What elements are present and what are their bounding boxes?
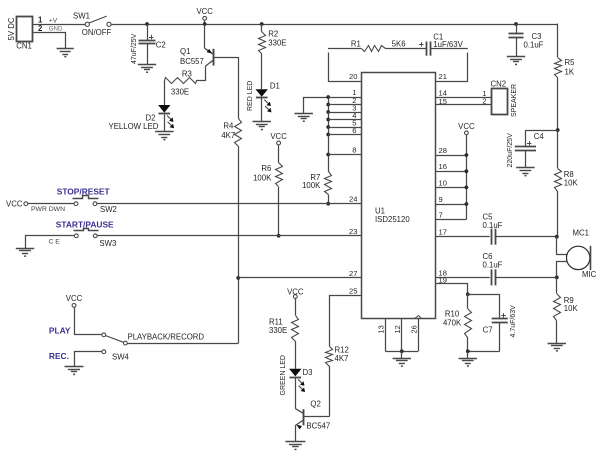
ground at C3 [507,57,525,66]
wire SW3 to pin23 [97,235,361,237]
pin 18 wire [436,269,490,278]
wire R10 node to ground [467,351,469,358]
op-amp U1 ISD25120 body [362,73,436,319]
svg-text:17: 17 [439,228,447,237]
svg-text:4K7: 4K7 [335,354,349,363]
wire SW3 to ground [26,236,75,249]
ground at IC bottom [393,359,411,367]
svg-text:YELLOW LED: YELLOW LED [109,122,159,131]
pin 5 wire [328,118,361,127]
wire bottom node to ground [401,351,403,358]
capacitor C7 4.7uF/63V [483,305,517,351]
svg-text:330E: 330E [269,326,287,335]
svg-text:CN2: CN2 [491,79,507,88]
pin 4 wire [328,111,361,120]
pin 23 label [349,227,357,236]
wire CN1 pin1 to SW1 [33,24,85,26]
svg-text:5K6: 5K6 [392,40,406,49]
wire rail to C2 [147,24,149,40]
node pin19 junction [466,292,470,296]
net label C E [49,238,61,245]
wire R11 to D3 [295,341,297,369]
svg-text:25: 25 [349,287,357,296]
svg-text:D1: D1 [270,82,280,91]
svg-text:C3: C3 [532,32,542,41]
svg-text:SW3: SW3 [99,239,116,248]
pin 12 wire [393,319,402,352]
svg-text:R1: R1 [351,40,361,49]
resistor R1 5K6 [351,40,406,52]
pin 17 wire [436,228,490,237]
svg-text:SW1: SW1 [73,11,90,20]
switch SW3 START/PAUSE [56,220,117,248]
pin 8 wire [328,146,361,155]
resistor R5 1K [555,58,576,78]
svg-text:+V: +V [49,17,58,24]
resistor R4 4K7 [221,119,241,147]
svg-text:VCC: VCC [6,200,23,209]
wire mic lower stub [557,262,567,278]
svg-text:0.1uF: 0.1uF [483,260,503,269]
svg-text:VCC: VCC [270,132,287,141]
power VCC at SW4 [66,294,83,335]
wire CN1 pin2 to ground [34,33,66,49]
wire R8 to pin17 node [557,191,559,236]
node Q1 emitter junction [203,22,207,26]
resistor R7 100K [302,172,331,195]
node bus pin6 [326,133,330,137]
connector CN1 (5V DC input) [7,17,33,51]
capacitor C6 0.1uF [483,252,503,286]
wire D1 to ground [261,98,263,122]
wire VCC to SW4 play contact [74,334,102,336]
svg-text:D3: D3 [303,368,313,377]
svg-text:PLAYBACK/RECORD: PLAYBACK/RECORD [128,332,205,341]
svg-text:13: 13 [377,325,386,333]
node pin17 mic junction [555,235,559,239]
LED D2 YELLOW [109,105,175,131]
svg-text:470K: 470K [443,318,462,327]
node vbus pin10 [465,186,469,190]
ground at R10 [459,359,477,367]
power VCC at R6 [270,132,287,163]
svg-text:20: 20 [349,72,357,81]
svg-text:6: 6 [352,126,356,135]
ground at CN1 pin2 [57,49,74,58]
svg-text:R12: R12 [335,345,349,354]
pin 14 wire [436,89,492,98]
ground at Q2 [285,442,305,451]
svg-text:10: 10 [439,178,447,187]
node R10 bottom junction [466,349,470,353]
wire R3 to D2 [164,81,166,106]
ground at C2 [138,65,156,74]
svg-text:VCC: VCC [287,288,304,297]
transistor Q1 BC557 [180,24,238,81]
connector CN2 SPEAKER [482,79,518,117]
svg-text:C2: C2 [156,40,166,49]
switch SW4 PLAYBACK/RECORD [102,332,205,361]
ground at SW3 [16,249,34,257]
node pin27 junction [236,276,240,280]
wire R6 to CE line [278,187,280,236]
wire VCC rail [111,24,558,26]
svg-text:GREEN LED: GREEN LED [280,355,287,395]
svg-text:1uF/63V: 1uF/63V [433,40,463,49]
node vbus pin9 [465,202,469,206]
pin 24 label [349,195,357,204]
svg-text:BC557: BC557 [180,57,204,66]
svg-text:SPEAKER: SPEAKER [511,84,518,117]
capacitor C2 47uF/25V [131,33,166,64]
svg-text:330E: 330E [171,88,189,97]
wire REC contact to ground [75,352,102,367]
ground at D2 [155,132,173,141]
svg-text:R8: R8 [564,170,574,179]
resistor R10 470K [443,294,472,337]
svg-text:12: 12 [393,325,402,333]
wire R1 to C1 [385,48,426,50]
wire mic upper stub [557,237,567,255]
node pin18 mic junction [555,276,559,280]
wire Q1 collector to R3 [196,80,205,82]
svg-text:MC1: MC1 [573,228,589,237]
pin 10 wire [436,178,467,187]
svg-text:STOP/RESET: STOP/RESET [57,186,111,196]
svg-text:R3: R3 [182,69,192,78]
switch SW2 STOP/RESET [57,186,117,214]
wire C6 to mic node [495,277,557,279]
svg-text:SW4: SW4 [112,352,130,361]
svg-text:REC.: REC. [49,351,69,361]
svg-text:GND: GND [49,25,63,32]
svg-text:10K: 10K [564,304,579,313]
svg-text:330E: 330E [268,39,286,48]
svg-text:CN1: CN1 [16,42,32,51]
net label GND [49,25,63,32]
pin 7 wire [436,211,467,220]
svg-text:START/PAUSE: START/PAUSE [56,220,114,230]
pin 9 wire [436,195,467,205]
node bus pin8 [326,153,330,157]
svg-text:PWR DWN: PWR DWN [31,206,65,213]
svg-text:ON/OFF: ON/OFF [82,28,112,37]
svg-text:4K7: 4K7 [221,131,235,140]
wire SW2 to pin24 [97,203,361,205]
wire bus ground branch [304,98,329,114]
svg-text:C E: C E [49,238,61,245]
power VCC at IC right [458,122,475,220]
svg-text:9: 9 [439,195,443,204]
svg-text:47uF/25V: 47uF/25V [131,33,138,64]
svg-text:0.1uF: 0.1uF [524,41,544,50]
wire input bus vertical [328,97,330,172]
pin 13 wire [377,319,386,352]
wire C1 to pin21 corner [430,48,468,50]
svg-text:SW2: SW2 [100,205,117,214]
svg-text:100K: 100K [253,173,272,182]
svg-text:R5: R5 [565,58,576,67]
svg-text:D2: D2 [146,113,156,122]
wire pin19 node to C7 [468,295,500,319]
svg-text:Q1: Q1 [180,47,190,56]
svg-text:23: 23 [349,227,357,236]
svg-text:C4: C4 [534,132,545,141]
node C2 junction [145,22,149,26]
svg-text:1K: 1K [565,68,575,77]
power VCC at R11 [287,288,304,316]
svg-text:24: 24 [349,195,357,204]
svg-text:VCC: VCC [66,294,83,303]
capacitor C3 0.1uF [509,24,544,57]
power VCC at SW2 [6,200,28,209]
node vbus pin28 [465,153,469,157]
node C4 junction [556,128,560,132]
transistor Q2 BC547 [295,400,330,442]
net label +V [49,17,58,24]
wire R4 to SW4 line [238,147,240,344]
svg-text:BC547: BC547 [306,421,330,430]
svg-text:MIC: MIC [582,270,597,279]
resistor R8 10K [555,169,579,192]
LED D1 RED [247,81,280,113]
LED D3 GREEN [280,355,312,395]
svg-text:100K: 100K [302,181,321,190]
pin 1 wire [328,88,361,98]
node bus pin3 [326,110,330,114]
CN1 pin 2 label [38,24,43,33]
ground at D1 [253,122,271,131]
wire mic node to R9 [556,277,558,293]
wire R2 to D1 [261,54,263,90]
resistor R6 100K [253,163,282,187]
wire C4 branch [526,131,558,147]
svg-text:R2: R2 [268,29,278,38]
wire R7 to pin24 line [328,195,330,204]
pin 28 wire [436,146,467,156]
wire R12 to Q2 base [329,366,331,417]
node C3 junction [514,22,518,26]
node R6 / pin23 junction [277,234,281,238]
svg-text:R6: R6 [261,164,271,173]
node bottom pins junction [400,349,404,353]
resistor R9 10K [554,294,579,321]
wire C7 bottom to R10 [468,351,500,353]
ground at input bus [295,114,313,123]
wire Q1 base line upper [238,57,240,119]
capacitor C4 220uF/25V [507,132,544,168]
svg-text:VCC: VCC [458,122,475,131]
pin 21 wire [436,53,468,82]
svg-text:ISD25120: ISD25120 [375,215,410,224]
svg-text:15: 15 [439,97,447,106]
svg-text:27: 27 [349,269,357,278]
capacitor C1 1uF/63V [419,33,463,56]
power VCC at Q1 [196,7,213,24]
svg-text:C7: C7 [483,325,493,334]
node vbus pin16 [465,169,469,173]
node bus pin2 [326,103,330,107]
wire SW4 to pin27 line [128,343,239,345]
pin 6 wire [328,126,361,135]
wire D3 to Q2 collector [295,377,297,408]
switch SW4 REC contact [102,350,106,354]
microphone MC1 [567,228,597,278]
svg-text:4.7uF/63V: 4.7uF/63V [510,305,517,338]
ground at SW4 [65,367,84,376]
svg-text:21: 21 [439,72,447,81]
svg-text:220uF/25V: 220uF/25V [507,133,514,168]
node bus pin1 [326,95,330,99]
svg-text:R10: R10 [445,310,460,319]
ground at C4 [516,168,534,177]
switch SW1 ON/OFF [73,11,111,37]
svg-text:2: 2 [482,97,486,106]
svg-text:PLAY: PLAY [49,326,71,336]
pin 25 label [349,287,357,296]
svg-text:5V DC: 5V DC [7,17,16,40]
pin 26 wire [410,316,422,352]
wire pin27 to IC [238,277,361,279]
svg-text:0.1uF: 0.1uF [483,221,503,230]
wire R10 bottom [467,337,469,351]
pin 15 wire [436,97,492,106]
node bus pin5 [326,125,330,129]
wire R5 to C4 node [557,78,559,169]
wire D2 to ground [164,115,166,132]
label REC. [49,351,69,361]
ground at R9 [548,344,566,352]
resistor R2 330E [259,24,287,54]
node bus pin4 [326,118,330,122]
svg-text:19: 19 [439,276,447,285]
wire pin20 corner to R1 [328,48,361,50]
capacitor C5 0.1uF [483,212,503,244]
svg-text:VCC: VCC [196,7,213,16]
label PLAY [49,326,71,336]
pin 16 wire [436,162,467,171]
svg-text:7: 7 [439,211,443,220]
wire VCC to SW2 [28,203,74,205]
svg-text:8: 8 [352,146,356,155]
pin 20 wire [329,53,362,82]
svg-text:R4: R4 [223,121,234,130]
pin 27 label [349,269,357,278]
CN1 pin 1 label [38,16,43,25]
wire C5 to mic node [495,236,557,238]
resistor R12 4K7 [326,345,349,366]
svg-text:Q2: Q2 [310,400,320,409]
resistor R3 330E [165,69,197,96]
svg-text:26: 26 [410,325,419,333]
node R7 / pin24 junction [326,202,330,206]
svg-text:2: 2 [38,24,43,33]
wire pin25 to R12 [330,296,362,347]
svg-text:RED LED: RED LED [247,81,254,111]
pin 2 wire [328,96,361,105]
pin 19 wire [436,276,468,295]
node R2 junction [260,22,264,26]
svg-text:16: 16 [439,162,447,171]
pin 3 wire [328,103,361,112]
resistor R11 330E [269,316,299,342]
wire R9 to ground [556,321,558,343]
net label PWR DWN [31,206,65,213]
wire rail corner down to R5 [557,24,559,58]
wire bottom pins join [385,351,418,353]
svg-text:28: 28 [439,146,447,155]
svg-text:10K: 10K [564,179,579,188]
